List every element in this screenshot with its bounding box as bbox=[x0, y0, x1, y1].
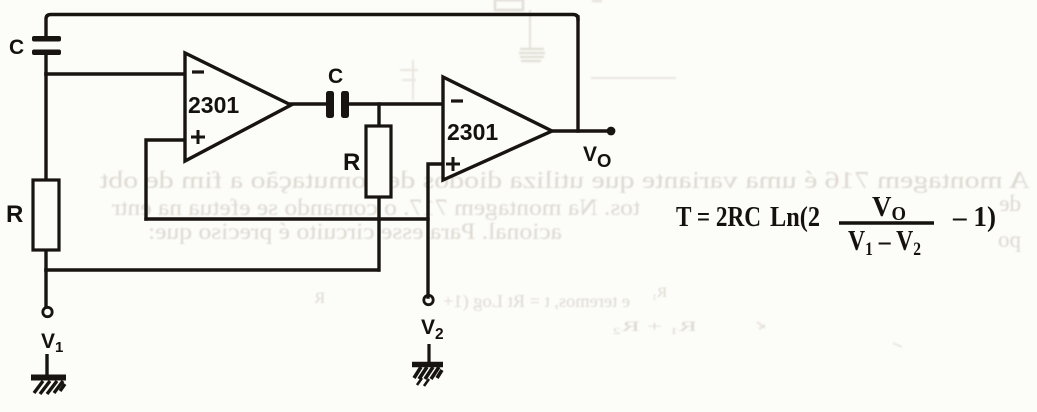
svg-text:R₁: R₁ bbox=[652, 285, 667, 301]
wire: node B down to terminal V1 bbox=[44, 270, 47, 307]
wire: node A down to resistor R1 bbox=[44, 74, 47, 180]
svg-text:– 1): – 1) bbox=[952, 201, 996, 233]
op-amp U1 bbox=[185, 53, 291, 161]
resistor R1 bbox=[33, 180, 59, 250]
svg-text:R₁ + R₂: R₁ + R₂ bbox=[612, 319, 697, 335]
svg-text:V1 – V2: V1 – V2 bbox=[848, 225, 921, 260]
wire: op-amp U1 output to capacitor C2 bbox=[291, 102, 327, 105]
ground (V2) bbox=[412, 344, 443, 386]
bleed-through (decorative, mirrored reverse-page print) bbox=[100, 0, 1030, 347]
svg-text:tos. Na montagem 717. o comand: tos. Na montagem 717. o comando se efetu… bbox=[112, 195, 640, 220]
wire: R1 bottom to node B bbox=[44, 250, 47, 270]
svg-text:R: R bbox=[314, 290, 325, 307]
svg-text:R: R bbox=[343, 149, 360, 176]
svg-text:C: C bbox=[328, 65, 343, 88]
output node dot bbox=[607, 127, 616, 136]
wire: R2 bottom stem down across W1 to node B wire bbox=[377, 197, 380, 270]
op-amp U2 bbox=[443, 77, 552, 180]
U1 inverting pin mark bbox=[192, 70, 204, 73]
wire: W1 horizontal from U1 + to V2 line bbox=[146, 217, 428, 220]
capacitor C1 (top-left) plates bbox=[32, 36, 61, 55]
svg-text:T = 2RC: T = 2RC bbox=[676, 201, 761, 233]
svg-text:R: R bbox=[6, 201, 23, 228]
faint reverse-page circuit fragments bbox=[495, 0, 523, 10]
wire: node B horizontal to R2 bottom stem bbox=[46, 268, 378, 271]
U1 non-inverting pin mark bbox=[191, 130, 205, 144]
svg-text:2301: 2301 bbox=[188, 92, 239, 118]
terminal V1 bbox=[43, 307, 52, 316]
svg-text:2301: 2301 bbox=[447, 119, 498, 145]
wire: capacitor C2 to op-amp U2 inverting input bbox=[349, 102, 443, 105]
wire: top feedback horizontal bbox=[46, 15, 578, 37]
capacitor C2 (coupling) plates bbox=[326, 91, 349, 118]
U2 inverting pin mark bbox=[451, 99, 463, 102]
wire: node A to op-amp U1 inverting input bbox=[46, 72, 185, 75]
svg-text:Ln(2: Ln(2 bbox=[770, 201, 820, 233]
wire: junction to resistor R2 top bbox=[377, 104, 380, 126]
wire: feedback vertical from top wire to output node bbox=[576, 17, 579, 131]
wire: C1 bottom to node A bbox=[44, 55, 47, 74]
svg-text:de: de bbox=[999, 191, 1021, 216]
U2 non-inverting pin mark bbox=[446, 157, 460, 171]
formula T = 2RC Ln(2 Vo/(V1-V2) - 1) bbox=[676, 191, 996, 260]
wire: op-amp U2 output bbox=[552, 129, 610, 132]
svg-text:C: C bbox=[9, 36, 24, 59]
wire: op-amp U2 non-inverting input step bbox=[428, 164, 443, 297]
svg-text:e teremos, t = Rt Log (1+: e teremos, t = Rt Log (1+ bbox=[443, 291, 630, 312]
wire: op-amp U1 non-inverting input step bbox=[146, 140, 185, 219]
svg-text:acional. Para esse circuito é: acional. Para esse circuito é preciso qu… bbox=[148, 219, 562, 244]
terminal V2 bbox=[424, 295, 433, 304]
ground (V1) bbox=[31, 354, 66, 394]
svg-text:po: po bbox=[998, 227, 1021, 252]
formula fraction bar bbox=[839, 221, 934, 224]
resistor R2 bbox=[366, 126, 391, 197]
